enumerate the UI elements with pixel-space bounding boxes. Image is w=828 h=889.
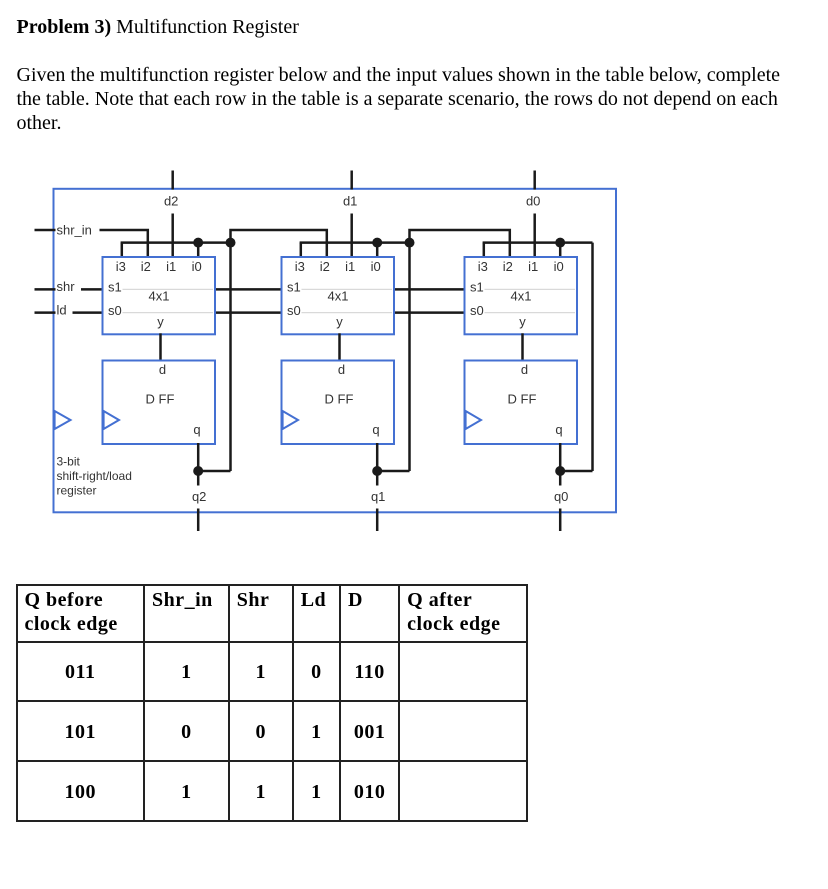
wire mux M3 y output to FF3 d input (521, 333, 524, 361)
svg-text:4x1: 4x1 (328, 289, 349, 304)
wire s1 bus mux M2 to mux M3 (393, 288, 466, 291)
node q0 label (550, 490, 574, 505)
flip-flop FF3 (D FF) (465, 361, 578, 445)
op-amp-style block: mux M2 (4x1) (282, 257, 395, 334)
svg-text:d1: d1 (343, 194, 357, 209)
node junction dot at mux M3 i0 (555, 238, 565, 248)
svg-text:i0: i0 (554, 259, 564, 274)
svg-text:y: y (157, 314, 164, 329)
svg-text:q: q (372, 422, 379, 437)
input shr stub outside box (35, 288, 56, 291)
svg-text:i0: i0 (371, 259, 381, 274)
wire FF2 q output down to q1 junction (376, 443, 379, 471)
wire q1 down to label (376, 471, 379, 486)
wire drop to mux M3 pin i0 (559, 243, 562, 258)
wire drop to mux M1 pin i0 (197, 243, 200, 258)
wire stage 3 input bus (over i3..i0) (483, 241, 593, 244)
node junction dot at mux M2 i0 (372, 238, 382, 248)
wire drop to mux M1 pin i3 (121, 243, 124, 258)
svg-text:register: register (57, 484, 97, 498)
svg-text:D FF: D FF (508, 391, 537, 406)
wire d0 input tick above box (533, 171, 536, 190)
wire feedback q2 horizontal from q junction (198, 470, 230, 473)
wire d1 to mux pin i1 (350, 214, 353, 259)
wire feedback q2 vertical (229, 243, 232, 471)
input ld stub outside box (35, 311, 56, 314)
node junction dot at mux M1 i0 (193, 238, 203, 248)
wire drop to mux M2 pin i0 (376, 243, 379, 258)
wire shr to mux M1 pin s1 (81, 288, 104, 291)
wire FF1 q output down to q2 junction (197, 443, 200, 471)
svg-text:shr: shr (57, 279, 76, 294)
op-amp-style block: mux M1 (4x1) (103, 257, 216, 334)
wire s0 bus mux M2 to mux M3 (393, 311, 466, 314)
wire FF3 q output down to q0 junction (559, 443, 562, 471)
svg-text:y: y (519, 314, 526, 329)
wire q2 down to label (197, 471, 200, 486)
flip-flop FF2 (D FF) (282, 361, 395, 445)
wire d2 input tick above box (171, 171, 174, 190)
svg-text:i3: i3 (116, 259, 126, 274)
node shr label (56, 279, 79, 294)
wire d0 to mux pin i1 (533, 214, 536, 259)
svg-text:i2: i2 (320, 259, 330, 274)
wire feedback q1 horizontal from q junction (377, 470, 409, 473)
wire stage 2 input bus (over i3..i0) (300, 241, 410, 244)
svg-text:i3: i3 (295, 259, 305, 274)
node junction dot q2 (193, 466, 203, 476)
svg-text:d: d (521, 362, 528, 377)
wire q0 output tick below box (559, 509, 562, 532)
svg-text:q0: q0 (554, 489, 568, 504)
node q2 label (188, 490, 212, 505)
svg-text:s1: s1 (108, 280, 122, 295)
svg-text:d2: d2 (164, 194, 178, 209)
flip-flop FF1 (D FF) (103, 361, 216, 445)
node q1 label (367, 490, 391, 505)
wire q1 to mux M3 pin i2 (shift chain) (410, 230, 510, 258)
svg-text:3-bit: 3-bit (57, 455, 81, 469)
wire q1 output tick below box (376, 509, 379, 532)
wire ld to mux M1 pin s0 (73, 311, 104, 314)
svg-text:4x1: 4x1 (149, 289, 170, 304)
svg-text:d0: d0 (526, 194, 540, 209)
wire feedback q0 vertical (591, 243, 594, 471)
svg-text:4x1: 4x1 (511, 289, 532, 304)
wire mux M2 y output to FF2 d input (338, 333, 341, 361)
svg-text:s0: s0 (470, 303, 484, 318)
wire d1 input tick above box (350, 171, 353, 190)
svg-text:d: d (338, 362, 345, 377)
svg-text:shr_in: shr_in (57, 223, 92, 238)
svg-text:s1: s1 (470, 280, 484, 295)
svg-text:i2: i2 (141, 259, 151, 274)
node d1 label (340, 195, 364, 210)
register clock input triangle (55, 411, 71, 429)
svg-text:q: q (193, 422, 200, 437)
node junction dot q1 (372, 466, 382, 476)
svg-text:i0: i0 (192, 259, 202, 274)
node junction dot on q1 feedback branch (405, 238, 415, 248)
wire q0 down to label (559, 471, 562, 486)
svg-text:ld: ld (57, 302, 67, 317)
node ld label (56, 302, 70, 317)
svg-text:shift-right/load: shift-right/load (57, 469, 132, 483)
wire feedback q0 horizontal from q junction (560, 470, 592, 473)
register caption: 3-bit shift-right/load register (57, 455, 132, 498)
node shr_in label (56, 223, 96, 238)
node junction dot on q2 feedback branch (226, 238, 236, 248)
wire feedback q1 vertical (408, 243, 411, 471)
wire drop to mux M3 pin i3 (483, 243, 486, 258)
wire mux M1 y output to FF1 d input (159, 333, 162, 361)
op-amp-style block: mux M3 (4x1) (465, 257, 578, 334)
svg-text:i1: i1 (528, 259, 538, 274)
wire s1 bus mux M1 to mux M2 (214, 288, 283, 291)
wire stage 1 input bus (over i3..i0) (121, 241, 231, 244)
wire q2 output tick below box (197, 509, 200, 532)
svg-text:d: d (159, 362, 166, 377)
wire drop to mux M2 pin i3 (300, 243, 303, 258)
svg-text:s0: s0 (287, 303, 301, 318)
svg-text:i1: i1 (166, 259, 176, 274)
wire shr_in to mux M1 pin i2 (100, 230, 148, 258)
svg-text:q2: q2 (192, 489, 206, 504)
svg-text:q1: q1 (371, 489, 385, 504)
svg-text:q: q (555, 422, 562, 437)
wire q2 to mux M2 pin i2 (shift chain) (231, 230, 327, 258)
node d2 label (161, 195, 185, 210)
input shr_in stub outside box (35, 229, 56, 232)
wire d2 to mux pin i1 (171, 214, 174, 259)
svg-text:i2: i2 (503, 259, 513, 274)
svg-text:y: y (336, 314, 343, 329)
svg-text:s1: s1 (287, 280, 301, 295)
svg-text:i3: i3 (478, 259, 488, 274)
node junction dot q0 (555, 466, 565, 476)
svg-text:s0: s0 (108, 303, 122, 318)
svg-text:D FF: D FF (325, 391, 354, 406)
svg-text:i1: i1 (345, 259, 355, 274)
svg-text:D FF: D FF (146, 391, 175, 406)
wire s0 bus mux M1 to mux M2 (214, 311, 283, 314)
register outer box (3-bit shift-right/load register) (54, 189, 617, 513)
node d0 label (523, 195, 547, 210)
